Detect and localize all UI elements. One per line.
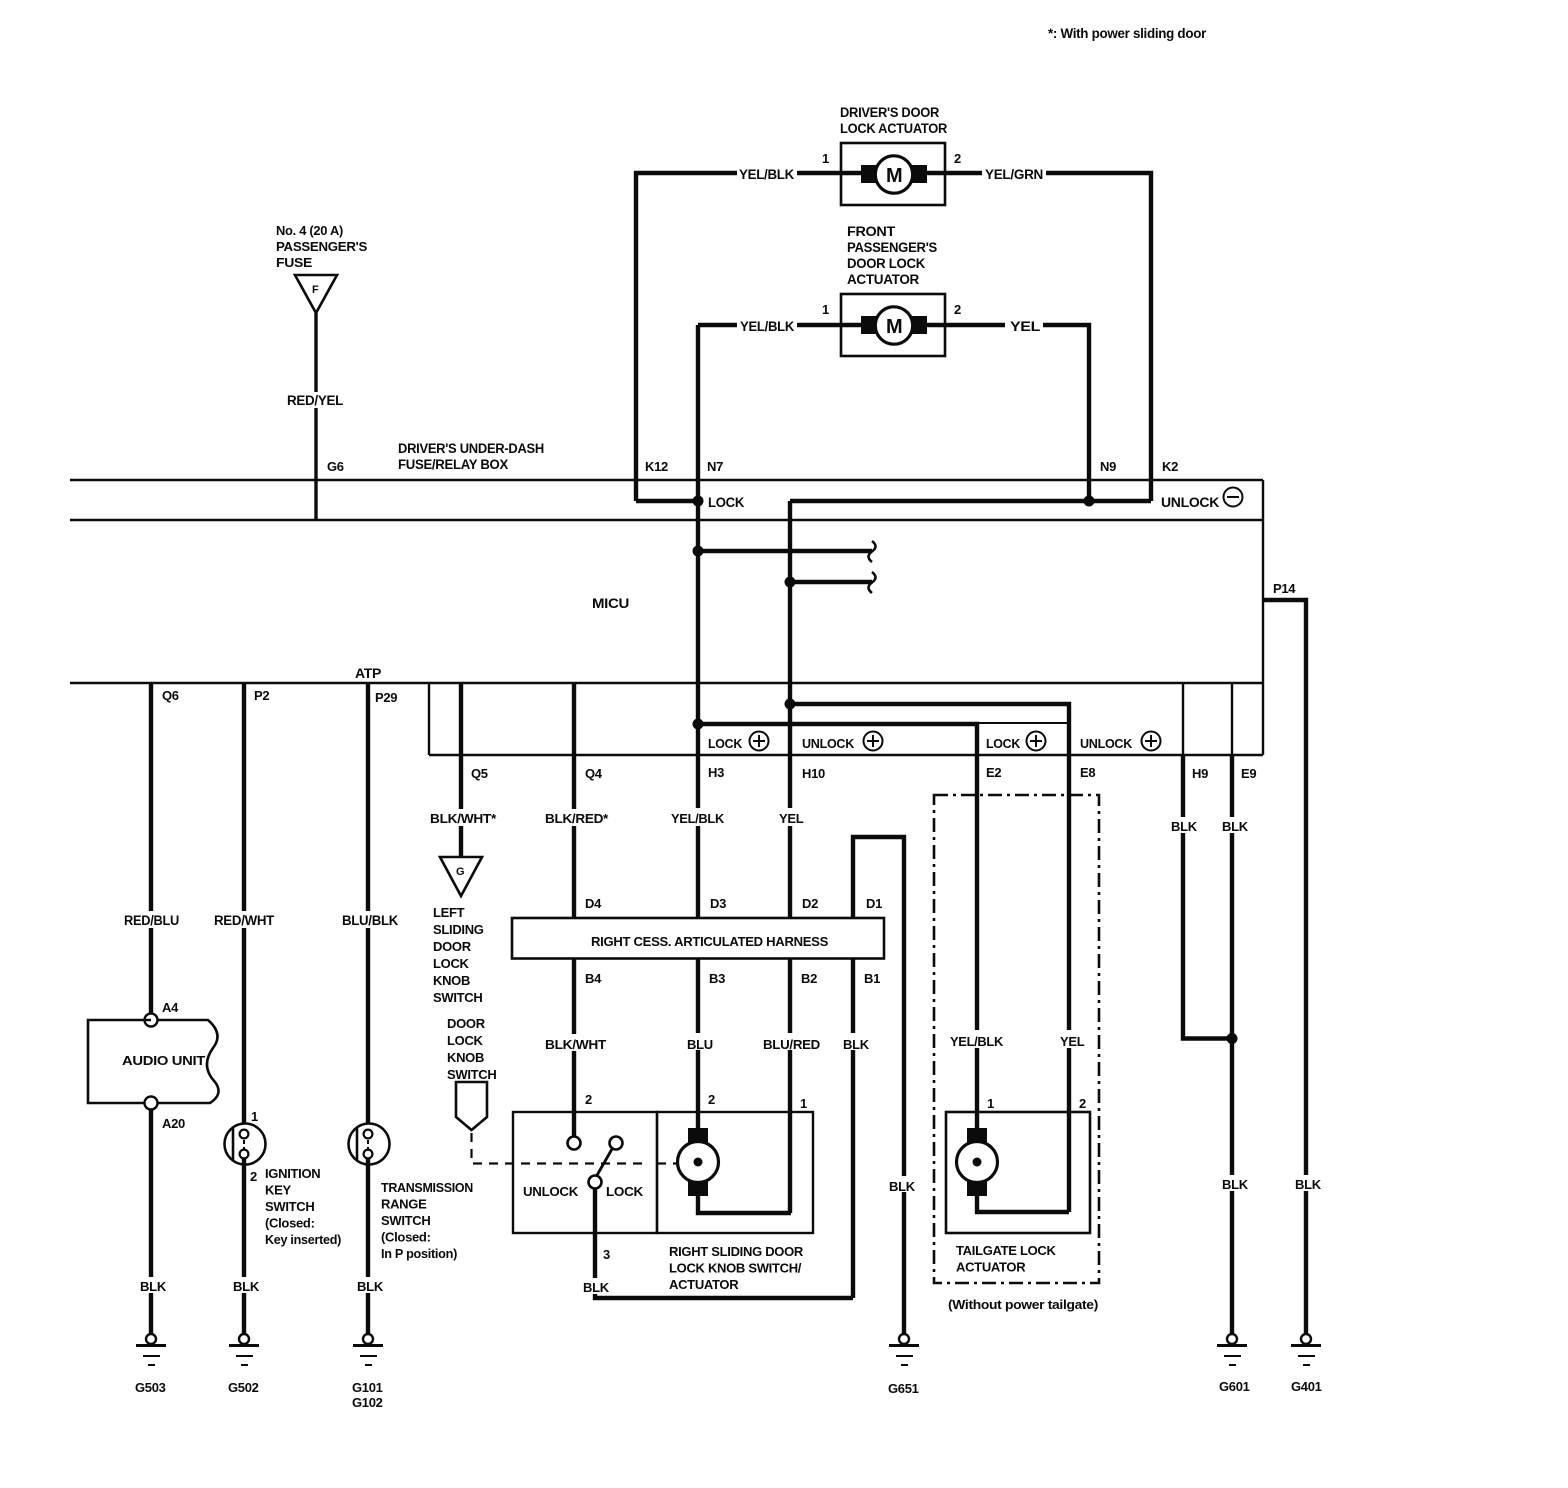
svg-text:DOOR: DOOR — [447, 1016, 486, 1031]
motor M2 circle — [875, 307, 912, 344]
svg-text:E9: E9 — [1241, 766, 1256, 781]
svg-text:G502: G502 — [228, 1380, 259, 1395]
svg-text:LOCK: LOCK — [433, 956, 470, 971]
motor M2 right terminal — [912, 316, 927, 334]
wire Q5 BLK/WHT* to ground triangle G — [459, 683, 463, 857]
svg-text:F: F — [312, 284, 319, 296]
svg-text:Q5: Q5 — [471, 766, 488, 781]
micu lower pin-row inner top border — [977, 722, 1069, 724]
svg-text:RANGE: RANGE — [381, 1197, 427, 1212]
svg-text:2: 2 — [1079, 1096, 1086, 1111]
svg-text:BLK: BLK — [1222, 819, 1249, 834]
svg-text:Q6: Q6 — [162, 688, 179, 703]
wire RED/YEL from fuse to G6 — [314, 313, 317, 520]
label BLK lower P14 — [1292, 1175, 1324, 1191]
micu pin-row separator E9 — [1231, 683, 1233, 755]
svg-text:G401: G401 — [1291, 1379, 1322, 1394]
wire Q6 RED/BLU to audio unit — [149, 683, 153, 1014]
svg-text:KEY: KEY — [265, 1183, 291, 1198]
svg-text:BLK: BLK — [357, 1279, 384, 1294]
svg-text:G503: G503 — [135, 1380, 166, 1395]
svg-text:YEL/BLK: YEL/BLK — [671, 811, 725, 826]
micu pin-row separator H9 — [1182, 683, 1184, 755]
svg-text:N7: N7 — [707, 459, 723, 474]
node junction H9/E9 — [1227, 1033, 1238, 1044]
svg-text:BLK: BLK — [843, 1037, 870, 1052]
svg-text:BLK: BLK — [889, 1179, 916, 1194]
wire Q4 BLK/RED* to switch pin 2 — [572, 683, 576, 1137]
wire P29 BLU/BLK to transmission range switch — [366, 683, 370, 1131]
svg-text:LOCK KNOB SWITCH/: LOCK KNOB SWITCH/ — [669, 1261, 802, 1276]
svg-text:3: 3 — [603, 1247, 610, 1262]
svg-text:SWITCH: SWITCH — [433, 990, 482, 1005]
wire N9 UNLOCK vertical through MICU — [788, 501, 792, 1213]
node stub junction on UNLOCK line — [785, 577, 796, 588]
svg-text:RIGHT CESS. ARTICULATED HARNES: RIGHT CESS. ARTICULATED HARNESS — [591, 934, 829, 949]
svg-text:YEL/GRN: YEL/GRN — [985, 167, 1043, 182]
motor M2 left terminal — [861, 316, 876, 334]
svg-text:BLK/WHT: BLK/WHT — [545, 1037, 606, 1052]
svg-text:ACTUATOR: ACTUATOR — [956, 1260, 1026, 1275]
fuse/relay box top edge — [70, 479, 1263, 481]
svg-text:YEL: YEL — [1010, 319, 1040, 334]
wire internal motor M4 return to pin 2 — [977, 1196, 1069, 1212]
svg-text:BLU/RED: BLU/RED — [763, 1037, 820, 1052]
svg-text:UNLOCK: UNLOCK — [523, 1184, 579, 1199]
svg-text:BLK/RED*: BLK/RED* — [545, 811, 609, 826]
svg-text:A20: A20 — [162, 1116, 185, 1131]
svg-text:DRIVER'S DOOR: DRIVER'S DOOR — [840, 105, 940, 120]
label BLK on B1 — [839, 1033, 870, 1052]
svg-text:ATP: ATP — [355, 666, 381, 681]
node LOCK junction K12/N7 — [693, 496, 704, 507]
svg-text:LOCK: LOCK — [606, 1184, 644, 1199]
svg-text:ACTUATOR: ACTUATOR — [669, 1277, 739, 1292]
svg-text:LOCK: LOCK — [986, 736, 1021, 751]
wire internal motor M3 return to pin 1 — [698, 1196, 791, 1213]
actuator M1 driver's door lock actuator box — [841, 143, 945, 205]
transmission range switch (circle connector) — [349, 1124, 390, 1165]
wire UNLOCK branch to E8 — [790, 704, 1069, 1212]
svg-text:Q4: Q4 — [585, 766, 603, 781]
svg-text:LOCK: LOCK — [708, 495, 745, 510]
svg-text:SWITCH: SWITCH — [265, 1199, 314, 1214]
motor M1 circle — [875, 156, 912, 193]
wire YEL from M2 pin 2 to N9 — [927, 323, 1005, 327]
wire YEL/GRN from M1 pin 2 to K2 — [927, 171, 982, 175]
svg-text:D2: D2 — [802, 896, 818, 911]
wire BLK from switch common to B1 — [595, 1188, 853, 1298]
wire UNLOCK bus inside fuse/relay box — [790, 499, 1151, 503]
svg-text:H10: H10 — [802, 766, 825, 781]
motor M4 top terminal — [967, 1128, 987, 1143]
micu box bottom edge (ATP line) — [70, 682, 1263, 684]
wire H9 BLK — [1183, 755, 1232, 1039]
dash-dot box without power tailgate — [934, 795, 1099, 1283]
ground G601 — [1217, 1334, 1247, 1365]
svg-text:FRONT: FRONT — [847, 224, 896, 239]
wire break symbol stub 2 — [869, 572, 876, 593]
motor M4 bottom terminal — [967, 1181, 987, 1196]
svg-text:LOCK: LOCK — [447, 1033, 484, 1048]
wire LOCK bus inside fuse/relay box — [636, 499, 699, 503]
micu lower pin-row sub-box bottom edge — [429, 754, 1263, 756]
wire internal stub 1 — [698, 549, 872, 553]
svg-text:YEL: YEL — [779, 811, 804, 826]
label BLK/WHT — [542, 1034, 609, 1051]
svg-text:1: 1 — [251, 1109, 258, 1124]
svg-text:FUSE/RELAY BOX: FUSE/RELAY BOX — [398, 457, 508, 472]
svg-text:DOOR: DOOR — [433, 939, 472, 954]
svg-text:BLK: BLK — [140, 1279, 167, 1294]
ground G503 — [136, 1334, 166, 1365]
label BLU/BLK — [339, 911, 401, 928]
svg-text:P2: P2 — [254, 688, 269, 703]
svg-text:ACTUATOR: ACTUATOR — [847, 272, 920, 287]
svg-text:G102: G102 — [352, 1395, 383, 1410]
wire YEL/BLK from N7 to M2 pin 1 — [698, 323, 737, 327]
svg-text:SWITCH: SWITCH — [381, 1213, 430, 1228]
dashed blade link into motor M3 — [657, 1162, 677, 1164]
svg-text:MICU: MICU — [592, 596, 629, 611]
wire P2 RED/WHT to ignition key switch — [242, 683, 246, 1131]
svg-text:K2: K2 — [1162, 459, 1178, 474]
svg-text:AUDIO UNIT: AUDIO UNIT — [122, 1053, 205, 1068]
svg-text:B2: B2 — [801, 971, 817, 986]
motor box right sliding door actuator — [657, 1112, 813, 1233]
svg-text:YEL/BLK: YEL/BLK — [950, 1034, 1004, 1049]
fuse/relay box bottom edge — [70, 519, 1263, 521]
svg-text:K12: K12 — [645, 459, 668, 474]
switch common pivot — [589, 1176, 602, 1189]
svg-text:H3: H3 — [708, 765, 724, 780]
svg-text:KNOB: KNOB — [433, 973, 470, 988]
node stub junction on LOCK line — [693, 546, 704, 557]
wire LOCK branch to E2 — [698, 724, 977, 1131]
label YEL on E8 — [1056, 1030, 1086, 1049]
door lock knob switch banner symbol — [456, 1082, 487, 1130]
svg-text:LEFT: LEFT — [433, 905, 465, 920]
micu box right edge — [1262, 480, 1264, 755]
label BLK lower E9 — [1219, 1175, 1251, 1191]
connector terminal A20 — [145, 1097, 158, 1110]
tailgate lock actuator box — [946, 1112, 1090, 1233]
motor M3 top terminal — [688, 1128, 708, 1143]
label RED/BLU — [121, 911, 182, 928]
svg-text:BLK: BLK — [233, 1279, 260, 1294]
label YEL/BLK on H3 — [668, 808, 728, 826]
svg-text:B1: B1 — [864, 971, 880, 986]
wire P14 stub from MICU right edge — [1263, 600, 1306, 1334]
micu lower pin-row sub-box left edge — [428, 683, 430, 755]
svg-text:B4: B4 — [585, 971, 602, 986]
motor M4 circle — [957, 1142, 998, 1183]
svg-text:TAILGATE LOCK: TAILGATE LOCK — [956, 1243, 1057, 1258]
svg-text:UNLOCK: UNLOCK — [1161, 495, 1220, 510]
dashed link from knob switch to switch blade — [472, 1133, 646, 1164]
svg-text:M: M — [886, 165, 902, 187]
svg-text:RED/BLU: RED/BLU — [124, 913, 179, 928]
svg-text:RED/YEL: RED/YEL — [287, 393, 343, 408]
motor M3 center dot — [694, 1158, 703, 1167]
wire BLK from transmission range switch to G101/G102 — [366, 1158, 370, 1334]
ignition key switch IGN (circle connector) — [225, 1124, 266, 1165]
motor M3 circle — [678, 1142, 719, 1183]
node junction H3/E2 — [693, 719, 704, 730]
label BLK/WHT* — [427, 809, 499, 826]
svg-text:In P position): In P position) — [381, 1246, 457, 1261]
node junction H10/E8 — [785, 699, 796, 710]
svg-text:LOCK: LOCK — [708, 736, 743, 751]
svg-text:BLK: BLK — [1222, 1177, 1249, 1192]
label BLK — [354, 1277, 386, 1293]
svg-text:2: 2 — [250, 1169, 257, 1184]
svg-text:G6: G6 — [327, 459, 344, 474]
svg-text:M: M — [886, 316, 902, 338]
svg-text:1: 1 — [800, 1096, 807, 1111]
wire BLK from ignition key switch to G502 — [242, 1158, 246, 1334]
svg-text:DRIVER'S UNDER-DASH: DRIVER'S UNDER-DASH — [398, 441, 544, 456]
wire D1/B1 BLK jog from harness up and over to G651 line — [853, 837, 904, 1334]
wire break symbol stub 1 — [869, 541, 876, 562]
ground G401 — [1291, 1334, 1321, 1365]
svg-text:E8: E8 — [1080, 765, 1095, 780]
svg-text:1: 1 — [822, 302, 829, 317]
svg-text:BLK: BLK — [1295, 1177, 1322, 1192]
svg-text:(Closed:: (Closed: — [265, 1216, 315, 1231]
svg-text:PASSENGER'S: PASSENGER'S — [847, 240, 937, 255]
svg-text:No. 4 (20 A): No. 4 (20 A) — [276, 223, 343, 238]
svg-text:KNOB: KNOB — [447, 1050, 484, 1065]
switch blade — [596, 1149, 612, 1177]
label BLK on H9 — [1168, 817, 1200, 833]
svg-text:BLK/WHT*: BLK/WHT* — [430, 811, 497, 826]
svg-text:D4: D4 — [585, 896, 602, 911]
svg-text:(Closed:: (Closed: — [381, 1230, 431, 1245]
svg-text:FUSE: FUSE — [276, 255, 313, 270]
motor M1 left terminal — [861, 165, 876, 183]
motor M1 right terminal — [912, 165, 927, 183]
svg-text:2: 2 — [708, 1092, 715, 1107]
svg-text:G601: G601 — [1219, 1379, 1250, 1394]
svg-text:G: G — [456, 866, 464, 878]
ground G101/G102 — [353, 1334, 383, 1365]
label BLK/RED* — [542, 809, 611, 826]
ground G502 — [229, 1334, 259, 1365]
svg-text:LOCK ACTUATOR: LOCK ACTUATOR — [840, 121, 948, 136]
switch terminal 2 — [568, 1137, 581, 1150]
switch terminal lock side — [610, 1137, 623, 1150]
ground G651 — [889, 1334, 919, 1365]
svg-text:DOOR LOCK: DOOR LOCK — [847, 256, 926, 271]
svg-text:E2: E2 — [986, 765, 1001, 780]
label BLK — [230, 1277, 262, 1293]
label BLK — [137, 1277, 169, 1293]
svg-text:UNLOCK: UNLOCK — [1080, 736, 1133, 751]
svg-text:B3: B3 — [709, 971, 725, 986]
label BLK — [580, 1278, 611, 1294]
label BLU — [684, 1033, 717, 1052]
svg-text:YEL/BLK: YEL/BLK — [739, 167, 795, 182]
connector terminal A4 — [145, 1014, 158, 1027]
label BLU/RED — [760, 1033, 823, 1052]
fuse F (triangle) — [295, 275, 337, 313]
actuator M2 front passenger's door lock actuator box — [841, 294, 945, 356]
svg-text:Key inserted): Key inserted) — [265, 1232, 341, 1247]
svg-text:BLK: BLK — [1171, 819, 1198, 834]
svg-text:P14: P14 — [1273, 581, 1296, 596]
svg-text:BLU/BLK: BLU/BLK — [342, 913, 399, 928]
svg-text:1: 1 — [987, 1096, 994, 1111]
svg-text:YEL/BLK: YEL/BLK — [740, 319, 795, 334]
label YEL/BLK on E2 — [947, 1030, 1005, 1049]
svg-text:2: 2 — [954, 151, 961, 166]
wire YEL/BLK from K12 to M1 pin 1 — [636, 173, 737, 501]
wire BLK from audio unit to G503 — [149, 1110, 153, 1334]
svg-text:SLIDING: SLIDING — [433, 922, 484, 937]
svg-text:N9: N9 — [1100, 459, 1116, 474]
ground triangle G — [440, 857, 482, 896]
svg-text:P29: P29 — [375, 690, 397, 705]
label BLK on G651 wire — [887, 1176, 916, 1194]
svg-text:UNLOCK: UNLOCK — [802, 736, 855, 751]
wire E9 BLK to G601 — [1230, 755, 1234, 1334]
label RED/WHT — [211, 911, 277, 928]
label YEL on H10 — [775, 808, 808, 826]
svg-text:D3: D3 — [710, 896, 726, 911]
switch box right sliding door lock knob switch — [513, 1112, 657, 1233]
motor M3 bottom terminal — [688, 1181, 708, 1196]
node UNLOCK junction N9/K2 — [1084, 496, 1095, 507]
label RED/YEL — [284, 392, 346, 408]
svg-text:BLU: BLU — [687, 1037, 713, 1052]
svg-text:2: 2 — [585, 1092, 592, 1107]
wire internal stub 2 — [790, 580, 872, 584]
svg-text:D1: D1 — [866, 896, 882, 911]
svg-text:A4: A4 — [162, 1000, 179, 1015]
svg-text:RIGHT SLIDING DOOR: RIGHT SLIDING DOOR — [669, 1244, 804, 1259]
svg-text:BLK: BLK — [583, 1280, 610, 1295]
svg-text:SWITCH: SWITCH — [447, 1067, 496, 1082]
label BLK on E9 — [1219, 817, 1251, 833]
svg-text:RED/WHT: RED/WHT — [214, 913, 275, 928]
svg-text:PASSENGER'S: PASSENGER'S — [276, 239, 368, 254]
svg-text:*: With power sliding door: *: With power sliding door — [1048, 26, 1207, 41]
svg-text:1: 1 — [822, 151, 829, 166]
harness box right cess articulated harness — [512, 918, 884, 959]
svg-text:TRANSMISSION: TRANSMISSION — [381, 1180, 473, 1195]
svg-text:(Without power tailgate): (Without power tailgate) — [948, 1297, 1098, 1312]
svg-text:H9: H9 — [1192, 766, 1208, 781]
svg-text:G651: G651 — [888, 1381, 919, 1396]
svg-text:IGNITION: IGNITION — [265, 1166, 320, 1181]
svg-text:YEL: YEL — [1060, 1034, 1085, 1049]
svg-text:2: 2 — [954, 302, 961, 317]
wire N7 LOCK vertical through MICU — [696, 325, 700, 1131]
audio unit box — [88, 1020, 219, 1103]
svg-text:G101: G101 — [352, 1380, 383, 1395]
motor M4 center dot — [973, 1158, 982, 1167]
